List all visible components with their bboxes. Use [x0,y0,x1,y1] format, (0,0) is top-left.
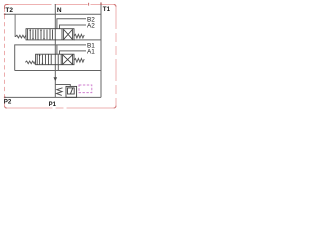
crossed arrows cell3 [62,54,64,65]
arrows cell2 [50,55,52,65]
valve V2 upper directional valve body [26,29,74,40]
arrows cell3 [52,30,54,40]
enclosure boundary bottom edge [5,106,114,109]
crossed arrows cell4 [63,29,65,40]
enclosure boundary right edge [114,7,117,108]
wire port B1 line with left housing edge [15,45,86,71]
boundary junction dot T2 line [4,13,6,15]
boundary junction dot P line [4,97,6,99]
wire T2 tank line [5,13,102,15]
flow arrow on supply line [54,77,58,81]
wire lower valve tank stub [57,65,59,71]
wire left housing line upper section [15,14,16,36]
wire lower section bottom line [15,70,101,72]
spring right of valve V2 [74,34,84,38]
svg-text:T1: T1 [103,6,111,13]
spring left of valve V1 [25,61,35,64]
arrows cell2 [40,30,42,40]
svg-text:P1: P1 [49,102,57,108]
spring right of valve V1 [74,59,84,63]
relief valve RV1 body [66,86,77,97]
valve V1 lower directional valve body [36,54,74,65]
wire port B2 line [57,19,86,29]
svg-text:P2: P2 [4,99,12,106]
enclosure boundary left edge dashed [5,5,7,106]
wire T1 vertical line [100,4,102,97]
wire N supply vertical [54,4,56,97]
wire relief valve feed [55,85,70,87]
svg-text:A1: A1 [87,49,95,56]
wire port A1 line [60,51,87,54]
wire port A2 line [60,25,87,29]
boundary corner accents [5,5,9,10]
svg-text:N: N [57,7,62,14]
boundary tick mark [88,3,90,6]
wire P1 gallery line [5,96,102,98]
relief valve RV1 inner element [68,88,75,94]
arrows cell1 [29,30,31,40]
arrows cell1 [39,55,41,65]
svg-text:A2: A2 [87,23,95,30]
enclosure boundary top edge [7,5,117,8]
relief valve RV1 arrow [71,88,73,94]
wire tank return upper valve to T1 [74,39,101,41]
wire B1 stub [56,45,58,54]
svg-text:T2: T2 [5,7,13,14]
relief valve RV1 spring [56,88,62,96]
spring left of valve V2 [16,35,27,38]
optional port dashed box [79,85,92,93]
